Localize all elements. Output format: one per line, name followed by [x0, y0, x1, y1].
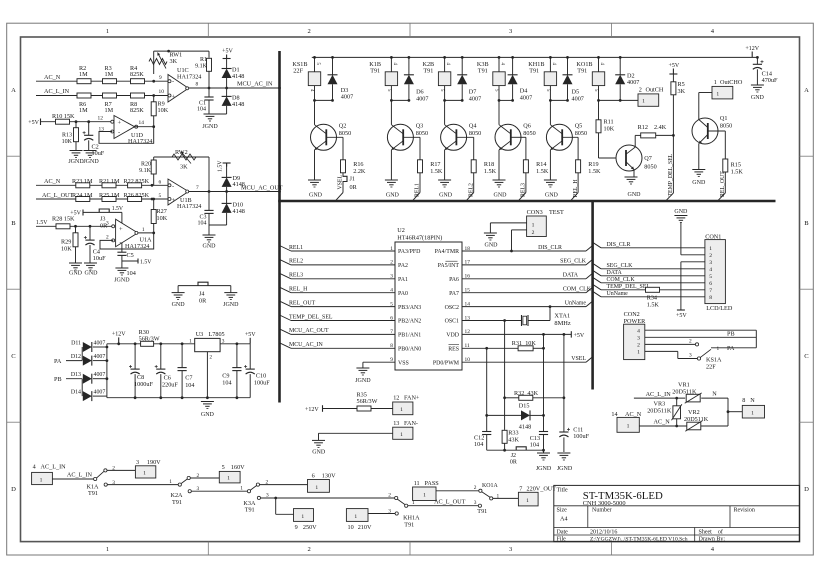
svg-text:CON3: CON3	[527, 209, 543, 216]
svg-text:4007: 4007	[572, 96, 584, 103]
svg-text:PASS: PASS	[425, 480, 440, 487]
ground GND Q6	[493, 179, 506, 181]
svg-text:190V: 190V	[147, 459, 161, 466]
node C4	[89, 225, 92, 228]
wire relay node K2B	[445, 99, 463, 101]
svg-text:HA17324: HA17324	[177, 73, 201, 80]
wire DATA to CON1	[593, 270, 601, 276]
wire collector Q7 to R12	[634, 135, 636, 147]
svg-text:2: 2	[307, 28, 310, 35]
svg-text:DATA: DATA	[563, 273, 579, 279]
svg-text:Q3: Q3	[416, 122, 424, 129]
wire U1A feedback	[100, 233, 154, 249]
svg-text:1.5K: 1.5K	[430, 168, 443, 175]
crystal XTA1	[462, 320, 522, 322]
svg-text:PB0/AN0: PB0/AN0	[398, 347, 421, 353]
svg-text:D13: D13	[71, 372, 81, 378]
svg-text:JGND: JGND	[557, 466, 573, 472]
svg-text:+5V: +5V	[70, 211, 81, 217]
wire R9 to U1D out	[153, 116, 155, 127]
svg-text:10K: 10K	[157, 215, 168, 222]
svg-text:GND: GND	[485, 243, 499, 249]
svg-text:104: 104	[185, 382, 194, 389]
wire column C	[543, 334, 545, 431]
svg-text:AC_N: AC_N	[654, 419, 671, 426]
wire AC_N (U1B input)	[36, 184, 168, 186]
svg-text:1: 1	[227, 476, 230, 482]
svg-text:+: +	[172, 197, 176, 204]
capacitor C5	[121, 243, 123, 252]
svg-text:D: D	[11, 486, 16, 493]
svg-text:PB1/AN1: PB1/AN1	[398, 333, 421, 339]
svg-text:8050: 8050	[339, 130, 351, 137]
svg-text:0R: 0R	[199, 297, 207, 304]
wire DIS_CLR from pin 18	[462, 250, 586, 252]
ground GND C4	[84, 262, 97, 264]
ground GND Q5	[544, 179, 557, 181]
svg-text:8: 8	[742, 397, 745, 404]
svg-text:1: 1	[143, 471, 146, 477]
svg-text:210V: 210V	[358, 524, 372, 531]
svg-text:8050: 8050	[469, 130, 481, 137]
svg-text:HT46R47(18PIN): HT46R47(18PIN)	[397, 235, 442, 242]
svg-text:1: 1	[714, 79, 717, 86]
svg-text:R29: R29	[61, 239, 71, 246]
svg-text:8MHz: 8MHz	[554, 320, 570, 327]
wire relay node KS1B	[315, 99, 333, 101]
svg-text:1.5V: 1.5V	[36, 220, 48, 226]
svg-text:3: 3	[689, 353, 692, 359]
diode D3	[331, 56, 334, 59]
switch KH1A	[395, 496, 398, 499]
wire emitter Q4	[444, 150, 446, 180]
svg-text:+12V: +12V	[305, 407, 319, 413]
connector 160V	[190, 477, 219, 479]
svg-text:POWER: POWER	[624, 318, 647, 325]
svg-text:D15: D15	[519, 403, 530, 410]
capacitor C11	[559, 431, 568, 433]
svg-text:9.1K: 9.1K	[139, 168, 152, 174]
svg-text:1: 1	[400, 407, 403, 413]
svg-text:R12: R12	[638, 124, 648, 131]
svg-text:2: 2	[709, 253, 712, 259]
resistor R23	[76, 183, 90, 188]
svg-text:AC_L_IN: AC_L_IN	[41, 464, 67, 471]
svg-text:2: 2	[106, 234, 109, 240]
svg-text:2: 2	[637, 343, 640, 349]
svg-text:Q2: Q2	[339, 122, 347, 129]
svg-text:GND: GND	[69, 271, 83, 277]
svg-text:T91: T91	[88, 490, 98, 497]
svg-text:C9: C9	[222, 373, 229, 380]
svg-text:1.5K: 1.5K	[647, 302, 660, 309]
svg-text:REL1: REL1	[415, 183, 421, 197]
diode D2	[619, 56, 622, 59]
svg-text:4: 4	[709, 267, 712, 273]
svg-text:OutCH: OutCH	[646, 87, 664, 94]
svg-text:FAN+: FAN+	[404, 394, 420, 401]
svg-text:3: 3	[474, 500, 477, 506]
wire U1D feedback	[99, 127, 154, 144]
svg-text:TEMP_DEL_SEL: TEMP_DEL_SEL	[668, 153, 674, 196]
svg-text:1: 1	[189, 338, 192, 344]
svg-text:GND: GND	[386, 193, 400, 199]
svg-text:REL2: REL2	[289, 259, 303, 265]
svg-text:R23 1M: R23 1M	[72, 178, 93, 185]
wire PASS to KO1A	[436, 490, 479, 492]
resistor R16	[341, 160, 346, 173]
svg-text:GND: GND	[628, 192, 642, 198]
resistor R27	[153, 199, 155, 210]
svg-text:3: 3	[709, 260, 712, 266]
svg-text:VSS: VSS	[398, 360, 409, 366]
node pin9	[152, 80, 155, 83]
svg-text:D7: D7	[469, 89, 477, 96]
resistor R32	[505, 397, 519, 399]
connector 220V_OUT	[493, 497, 519, 499]
ground GND C14	[751, 84, 764, 86]
diode D11	[83, 342, 92, 352]
svg-text:4148: 4148	[233, 208, 245, 215]
resistor R15	[708, 130, 726, 132]
ground GND FAN	[312, 439, 325, 441]
wire AC_N VR2	[639, 425, 687, 427]
svg-text:+: +	[119, 226, 123, 233]
svg-text:10uF: 10uF	[92, 150, 105, 157]
svg-text:RES: RES	[448, 347, 459, 353]
wire TEMP_DEL_SEL to U2 pin 6	[280, 315, 292, 321]
svg-text:43K: 43K	[508, 436, 519, 443]
capacitor C6	[159, 342, 162, 345]
svg-text:C3: C3	[199, 214, 206, 220]
svg-text:T91: T91	[423, 67, 433, 74]
svg-text:UnName: UnName	[607, 291, 629, 297]
svg-text:4148: 4148	[519, 424, 531, 431]
wire column B	[504, 321, 506, 430]
ground GND CON3	[484, 232, 497, 234]
svg-text:PA: PA	[54, 358, 62, 365]
wire VSEL from pin 10	[462, 361, 586, 363]
svg-text:GND: GND	[545, 193, 559, 199]
wire FAN- to gnd	[319, 432, 393, 434]
resistor R18	[471, 160, 476, 173]
svg-text:R11: R11	[604, 119, 614, 126]
svg-text:AC_N: AC_N	[44, 178, 61, 185]
transistor Q7	[599, 157, 617, 159]
svg-text:A: A	[11, 87, 16, 94]
svg-text:5: 5	[709, 274, 712, 280]
svg-text:C1: C1	[199, 100, 206, 106]
net REL2 to bus	[473, 173, 475, 193]
svg-text:PA5/INT: PA5/INT	[438, 263, 460, 269]
svg-text:PA7: PA7	[449, 291, 459, 297]
svg-text:SEG_CLK: SEG_CLK	[560, 259, 587, 265]
svg-text:Size: Size	[557, 508, 568, 514]
svg-text:1: 1	[526, 498, 529, 504]
svg-text:C7: C7	[185, 375, 192, 382]
svg-text:MCU_AC_OUT: MCU_AC_OUT	[241, 184, 283, 191]
svg-text:2: 2	[474, 485, 477, 491]
bus horizontal line	[278, 200, 775, 203]
ground rail power supply	[107, 397, 250, 399]
op-amp U1B	[168, 179, 189, 205]
svg-text:DATA: DATA	[607, 270, 623, 276]
+12V rail	[312, 56, 758, 58]
resistor R13	[75, 122, 77, 128]
wire relay node K1B	[391, 99, 409, 101]
svg-text:5: 5	[159, 193, 162, 199]
svg-text:0R: 0R	[350, 184, 358, 191]
svg-text:GND: GND	[312, 450, 326, 456]
wire K2A to K3A	[191, 490, 247, 492]
transistor Q2	[314, 100, 316, 124]
svg-text:4148: 4148	[232, 101, 244, 108]
svg-text:FAN-: FAN-	[404, 420, 418, 427]
overline RES	[449, 344, 460, 346]
connector 250V	[275, 498, 277, 514]
node R29	[74, 225, 77, 228]
wire OutCHO to Q1	[699, 92, 712, 94]
svg-text:1: 1	[751, 411, 754, 417]
ground JGND C2	[84, 150, 97, 152]
svg-text:R26 825K: R26 825K	[124, 192, 150, 199]
diode D9	[226, 163, 228, 167]
wire K3A low branch	[260, 497, 394, 499]
svg-text:PA1: PA1	[398, 277, 408, 283]
svg-text:250V: 250V	[303, 524, 317, 531]
svg-text:R25 1M: R25 1M	[99, 192, 120, 199]
wire MCU_AC_OUT to U2 pin 7	[280, 329, 292, 335]
resistor R25	[102, 197, 116, 202]
svg-text:2: 2	[689, 338, 692, 344]
svg-text:PB: PB	[727, 330, 735, 337]
svg-text:D4: D4	[520, 88, 528, 95]
svg-text:RW2: RW2	[175, 149, 188, 156]
svg-text:160V: 160V	[231, 464, 245, 471]
svg-text:R17: R17	[430, 161, 440, 168]
svg-text:4148: 4148	[233, 181, 245, 188]
svg-text:8050: 8050	[720, 123, 732, 130]
power +5V out	[249, 338, 251, 344]
resistor R6	[77, 93, 91, 98]
svg-text:Title: Title	[557, 488, 568, 494]
capacitor C13	[539, 431, 548, 433]
svg-text:VSEL: VSEL	[338, 175, 344, 190]
wire REL3 to U2 pin 3	[280, 273, 292, 279]
svg-text:GND: GND	[494, 193, 508, 199]
svg-text:D14: D14	[71, 390, 81, 396]
svg-text:9: 9	[159, 75, 162, 81]
svg-text:-: -	[172, 79, 174, 86]
relay KH1B	[549, 56, 552, 59]
ground GND U1B	[203, 234, 216, 236]
svg-text:+12V: +12V	[745, 46, 759, 52]
svg-text:1: 1	[354, 514, 357, 520]
svg-text:20D511K: 20D511K	[647, 408, 672, 415]
svg-text:2012/10/16: 2012/10/16	[590, 529, 617, 535]
svg-text:0R: 0R	[510, 460, 517, 466]
wire emitter Q7	[633, 170, 635, 178]
transistor Q3	[390, 100, 392, 124]
wire CON2 pin1	[645, 350, 678, 352]
svg-text:COM_CLK: COM_CLK	[607, 277, 636, 283]
svg-text:+5V: +5V	[668, 63, 679, 69]
svg-text:4007: 4007	[94, 340, 106, 346]
svg-text:R18: R18	[484, 161, 494, 168]
svg-text:1: 1	[400, 432, 403, 438]
svg-text:File: File	[557, 537, 567, 543]
svg-text:GND: GND	[751, 95, 765, 101]
svg-text:VR3: VR3	[654, 401, 666, 408]
ground GND Q4	[438, 179, 451, 181]
svg-text:LCD/LED: LCD/LED	[706, 305, 733, 312]
resistor R8	[131, 93, 145, 98]
transistor Q6	[498, 100, 500, 124]
svg-text:4007: 4007	[94, 354, 106, 360]
svg-text:T91: T91	[577, 67, 587, 74]
wire DIS_CLR to CON1	[593, 242, 601, 248]
wire SEG_CLK to CON1	[593, 263, 601, 269]
ground JGND R13	[70, 150, 83, 152]
svg-text:1: 1	[716, 91, 719, 97]
jumper J3	[99, 209, 109, 212]
svg-text:20D511K: 20D511K	[684, 416, 709, 423]
svg-text:AC_L_IN: AC_L_IN	[44, 88, 70, 95]
transistor Q1	[692, 118, 718, 144]
svg-text:T91: T91	[477, 508, 487, 515]
svg-text:-: -	[172, 183, 174, 190]
svg-text:+5V: +5V	[222, 49, 233, 55]
svg-text:Date: Date	[557, 529, 569, 535]
svg-text:KH1A: KH1A	[403, 514, 420, 521]
resistor R3	[103, 79, 117, 84]
svg-text:56R/3W: 56R/3W	[139, 335, 160, 342]
svg-text:R24 1M: R24 1M	[72, 192, 93, 199]
wire U1A vplus	[121, 212, 123, 223]
capacitor C10	[249, 344, 251, 369]
svg-text:REL_H: REL_H	[289, 287, 308, 293]
op-amp U1C	[168, 75, 189, 103]
svg-text:Q5: Q5	[575, 122, 583, 129]
svg-text:8050: 8050	[416, 130, 428, 137]
wire base Q3	[403, 136, 420, 138]
wire 1.5V input U1A	[36, 225, 112, 227]
svg-text:2: 2	[532, 230, 535, 236]
svg-text:1.5V: 1.5V	[112, 206, 124, 212]
svg-text:C10: C10	[256, 373, 266, 380]
wire U1D output	[135, 126, 154, 128]
svg-text:14: 14	[139, 120, 145, 126]
svg-text:C: C	[11, 353, 16, 360]
svg-text:1M: 1M	[105, 71, 114, 78]
net REL_H to bus	[577, 173, 579, 193]
overline PA5/INT	[446, 260, 458, 262]
svg-text:+5V: +5V	[245, 332, 256, 338]
capacitor C9	[236, 342, 239, 345]
svg-text:1: 1	[717, 346, 720, 352]
svg-text:1: 1	[169, 479, 172, 485]
svg-text:1: 1	[423, 493, 426, 499]
resistor R2	[77, 79, 91, 84]
wire AC_L_IN (U1C input)	[36, 95, 168, 97]
svg-text:T91: T91	[529, 67, 539, 74]
svg-text:R22 825K: R22 825K	[124, 178, 150, 185]
svg-text:PB2/AN2: PB2/AN2	[398, 319, 421, 325]
svg-text:1.5K: 1.5K	[731, 169, 744, 176]
svg-text:1.5K: 1.5K	[588, 168, 601, 175]
ground GND R29	[69, 262, 82, 264]
svg-text:PB3/AN3: PB3/AN3	[398, 305, 421, 311]
svg-text:1: 1	[532, 222, 535, 228]
node R13	[75, 120, 78, 123]
wire REL2 to U2 pin 2	[280, 259, 292, 265]
svg-text:R16: R16	[353, 161, 363, 168]
wire PA input	[66, 360, 82, 362]
relay KS1B	[313, 56, 316, 59]
wire SEG_CLK from pin 17	[462, 264, 586, 266]
svg-text:SEG_CLK: SEG_CLK	[607, 263, 634, 269]
capacitor C2	[88, 122, 90, 136]
svg-text:T91: T91	[370, 67, 380, 74]
resistor R30	[141, 341, 154, 346]
svg-text:PD0/PWM: PD0/PWM	[433, 360, 460, 366]
switch K2A	[178, 483, 181, 486]
svg-text:PA2: PA2	[398, 263, 408, 269]
title block	[554, 485, 800, 541]
svg-text:JGND: JGND	[536, 466, 552, 472]
svg-text:1: 1	[315, 485, 318, 491]
svg-text:REL_H: REL_H	[573, 179, 579, 198]
svg-text:JGND: JGND	[202, 124, 218, 130]
svg-text:HA17324: HA17324	[177, 203, 201, 210]
ground GND Q7	[625, 176, 638, 178]
relay K1B	[390, 56, 393, 59]
svg-text:OSC2: OSC2	[445, 305, 459, 311]
resistor R34	[646, 287, 660, 292]
svg-text:10K: 10K	[158, 107, 169, 114]
svg-text:N: N	[712, 391, 717, 398]
resistor R29	[75, 226, 77, 233]
svg-text:REL_OUT: REL_OUT	[289, 300, 316, 306]
wire OSC2 UnName	[462, 306, 586, 308]
wire PB	[645, 336, 757, 338]
wire CON3 pin2 to DIS_CLR	[512, 229, 527, 231]
diode D14	[83, 391, 92, 401]
svg-text:N: N	[750, 397, 755, 404]
svg-text:10: 10	[348, 524, 354, 531]
resistor R14	[523, 160, 528, 173]
svg-text:TEST: TEST	[549, 209, 564, 216]
svg-text:10: 10	[159, 89, 165, 95]
svg-text:+12V: +12V	[112, 332, 126, 338]
svg-text:10K: 10K	[62, 139, 73, 145]
svg-text:R32 43K: R32 43K	[514, 390, 539, 397]
svg-text:3: 3	[106, 221, 109, 227]
svg-text:AC_L_OUT: AC_L_OUT	[42, 192, 73, 199]
wire D10 to gnd	[209, 224, 227, 226]
svg-text:GND: GND	[85, 271, 99, 277]
svg-text:MCU_AC_OUT: MCU_AC_OUT	[289, 328, 329, 334]
wire base Q6	[511, 136, 526, 138]
diode D12	[83, 356, 92, 366]
wire diode anode column	[81, 347, 83, 361]
svg-text:PA3/PFD: PA3/PFD	[398, 249, 421, 255]
svg-text:JGND: JGND	[83, 159, 99, 165]
varistor VR3	[676, 398, 678, 406]
svg-text:7: 7	[709, 288, 712, 294]
svg-text:REL3: REL3	[521, 183, 527, 197]
ground JGND U1C	[209, 113, 227, 115]
